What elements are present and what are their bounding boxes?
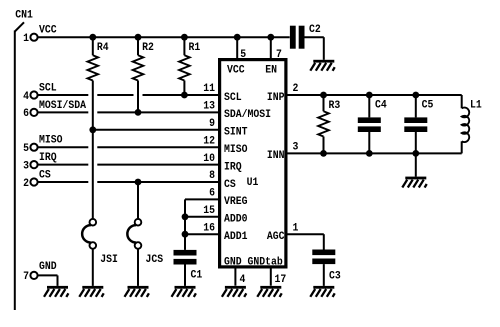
resistor R4: [88, 37, 110, 130]
jumper JSI: [82, 130, 118, 286]
svg-text:1: 1: [293, 222, 299, 235]
svg-text:9: 9: [209, 117, 215, 130]
svg-text:MISO: MISO: [224, 143, 248, 156]
junction SDA/R2: [135, 109, 142, 116]
svg-text:AGC: AGC: [267, 230, 285, 243]
svg-text:CS: CS: [39, 169, 51, 182]
junction VCC/pin7: [267, 34, 274, 41]
svg-text:INP: INP: [267, 91, 285, 104]
svg-text:JCS: JCS: [146, 253, 164, 266]
U1 pin 16 (ADD1) label: [203, 222, 247, 243]
connector CN1 pin 5 (MISO): [23, 134, 62, 155]
svg-text:INN: INN: [267, 150, 285, 163]
capacitor C5: [404, 95, 433, 153]
U1 pin 12 (MISO) label: [203, 135, 247, 156]
ground (U1 pin17): [257, 286, 281, 297]
wire SCL net: [37, 94, 88, 96]
svg-text:SCL: SCL: [224, 91, 242, 104]
U1 pin 8 (CS) label: [209, 170, 236, 191]
svg-text:GND GNDtab: GND GNDtab: [224, 256, 283, 269]
wire CS net: [37, 181, 88, 183]
connector CN1 pin 2 (CS): [23, 169, 51, 190]
svg-text:2: 2: [23, 177, 29, 190]
svg-text:U1: U1: [247, 176, 259, 189]
svg-text:R2: R2: [142, 42, 154, 55]
svg-text:11: 11: [203, 83, 215, 96]
svg-text:CN1: CN1: [15, 9, 33, 22]
svg-text:4: 4: [23, 90, 29, 103]
capacitor C3: [312, 250, 340, 286]
svg-text:JSI: JSI: [100, 253, 118, 266]
junction INN: [412, 150, 419, 157]
U1 pin 3 (INN) label: [267, 141, 299, 162]
ground (C1): [172, 286, 196, 297]
wire SINT net: [93, 129, 218, 131]
svg-text:7: 7: [276, 48, 282, 61]
svg-text:R1: R1: [189, 42, 201, 55]
U1 pin 6 (VREG) label: [209, 187, 247, 208]
U1 pin 4: [235, 269, 246, 287]
svg-text:1: 1: [23, 32, 29, 45]
svg-text:ADD0: ADD0: [224, 213, 248, 226]
connector CN1 body: [15, 22, 24, 310]
svg-text:3: 3: [23, 160, 29, 173]
ground (JCS): [125, 286, 149, 297]
jumper JCS: [127, 182, 163, 286]
U1 pin 10 (IRQ) label: [203, 152, 242, 173]
U1 pin 7 (EN): [265, 37, 282, 77]
wire MOSI/SDA net: [37, 111, 88, 113]
svg-text:10: 10: [203, 152, 215, 165]
U1 pin 17: [271, 269, 286, 287]
svg-text:5: 5: [240, 48, 246, 61]
svg-text:R3: R3: [329, 99, 341, 112]
wire GND pin7 to ground: [37, 275, 57, 286]
capacitor C1: [174, 250, 203, 286]
svg-text:IRQ: IRQ: [39, 152, 57, 165]
junction VCC/R4: [89, 34, 96, 41]
junction VCC/pin5: [234, 34, 241, 41]
svg-text:16: 16: [203, 222, 215, 235]
capacitor C4: [358, 95, 388, 153]
svg-text:EN: EN: [265, 64, 277, 77]
resistor R3: [318, 95, 340, 153]
svg-text:L1: L1: [470, 99, 482, 112]
svg-text:6: 6: [23, 108, 29, 121]
svg-text:C5: C5: [422, 99, 434, 112]
U1 pin 11 (SCL) label: [203, 83, 241, 104]
svg-text:C4: C4: [375, 99, 387, 112]
svg-text:8: 8: [209, 170, 215, 183]
U1 pin 9 (SINT) label: [209, 117, 248, 138]
svg-text:VCC: VCC: [227, 64, 245, 77]
wire AGC to C3: [288, 234, 324, 249]
junction INP: [412, 92, 419, 99]
wire VCC rail: [37, 36, 289, 38]
junction SCL/R1: [181, 92, 188, 99]
svg-text:CS: CS: [224, 178, 236, 191]
wire C2 to ground: [304, 37, 324, 60]
U1 pin 15 (ADD0) label: [203, 204, 247, 225]
svg-text:SCL: SCL: [39, 82, 57, 95]
svg-text:R4: R4: [97, 42, 109, 55]
svg-text:MISO: MISO: [39, 134, 63, 147]
junction ADD1: [182, 231, 189, 238]
svg-text:SDA/MOSI: SDA/MOSI: [224, 109, 271, 122]
junction INP: [366, 92, 373, 99]
junction VCC/R1: [181, 34, 188, 41]
U1 pin 13 (SDA/MOSI) label: [203, 100, 271, 121]
svg-text:MOSI/SDA: MOSI/SDA: [39, 99, 87, 112]
svg-text:15: 15: [203, 204, 215, 217]
wire IRQ net: [37, 164, 88, 166]
svg-text:5: 5: [23, 142, 29, 155]
wire VREG/ADD0/ADD1 to C1: [185, 199, 218, 250]
ground (JSI): [79, 286, 103, 297]
svg-text:C1: C1: [191, 269, 203, 282]
svg-text:IRQ: IRQ: [224, 161, 242, 174]
junction SINT/R4/JSI: [89, 126, 96, 133]
svg-text:ADD1: ADD1: [224, 230, 248, 243]
svg-text:C3: C3: [329, 270, 341, 283]
junction VCC/R2: [135, 34, 142, 41]
svg-text:7: 7: [23, 271, 29, 284]
connector CN1 pin 1 (VCC): [23, 24, 57, 45]
ground (INN filter): [402, 177, 426, 188]
svg-text:6: 6: [209, 187, 215, 200]
svg-text:3: 3: [293, 141, 299, 154]
wire MISO net: [37, 146, 88, 148]
connector CN1 pin 4 (SCL): [23, 82, 57, 103]
U1 pin 2 (INP) label: [267, 83, 299, 104]
resistor R1: [179, 37, 200, 95]
wire C5 to ground: [415, 153, 417, 176]
ground (C2): [310, 60, 334, 71]
connector CN1 pin 7 (GND): [23, 261, 57, 284]
junction CS/JCS: [135, 179, 142, 186]
op-amp U1 box: [220, 60, 286, 267]
svg-text:VCC: VCC: [39, 24, 57, 37]
connector CN1 pin 3 (IRQ): [23, 152, 57, 173]
svg-text:VREG: VREG: [224, 196, 248, 209]
svg-text:GND: GND: [39, 261, 57, 274]
svg-text:2: 2: [293, 83, 299, 96]
U1 pin 1 (AGC) label: [267, 222, 299, 243]
junction INN: [320, 150, 327, 157]
resistor R2: [133, 37, 154, 112]
svg-text:17: 17: [275, 273, 287, 286]
inductor L1: [462, 99, 482, 142]
junction INN: [366, 150, 373, 157]
connector CN1 pin 6 (MOSI/SDA): [23, 99, 87, 120]
ground (C3): [310, 286, 334, 297]
U1 pin 5 (VCC): [227, 37, 246, 77]
wire INN net: [288, 141, 462, 153]
junction ADD0: [182, 213, 189, 220]
ground (CN1 GND): [44, 286, 68, 297]
svg-text:12: 12: [203, 135, 215, 148]
svg-text:C2: C2: [309, 23, 321, 36]
capacitor C2: [290, 23, 321, 48]
ground (U1 pin4): [222, 286, 246, 297]
svg-text:13: 13: [203, 100, 215, 113]
wire INP net: [288, 95, 462, 108]
junction INP: [320, 92, 327, 99]
svg-text:4: 4: [240, 273, 246, 286]
svg-text:SINT: SINT: [224, 126, 248, 139]
